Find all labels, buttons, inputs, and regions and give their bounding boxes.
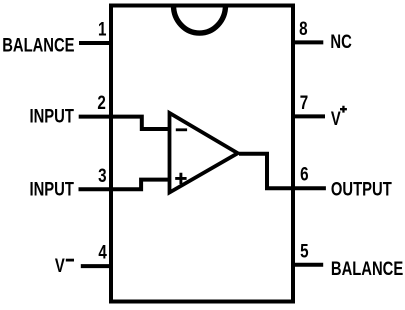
svg-text:INPUT: INPUT [30, 106, 75, 127]
svg-text:7: 7 [300, 91, 308, 113]
svg-text:2: 2 [97, 91, 105, 113]
op-amp non-inverting input plus sign [175, 173, 186, 184]
svg-text:1: 1 [98, 18, 107, 40]
svg-text:BALANCE: BALANCE [331, 258, 403, 279]
svg-text:4: 4 [98, 241, 107, 263]
wire pin 2 stub and inverting-input lead [79, 117, 170, 129]
svg-text:NC: NC [330, 31, 351, 52]
wire pin 8 stub [291, 40, 323, 44]
wire pin 1 stub [79, 41, 113, 45]
svg-text:6: 6 [300, 163, 308, 185]
svg-text:8: 8 [299, 17, 308, 39]
svg-text:V: V [331, 108, 341, 129]
svg-text:INPUT: INPUT [30, 179, 75, 200]
svg-text:OUTPUT: OUTPUT [331, 179, 392, 200]
pin-1 index notch [174, 6, 226, 34]
wire pin 5 stub [291, 263, 323, 267]
svg-text:5: 5 [300, 240, 309, 262]
wire pin 7 stub [291, 114, 325, 118]
wire pin 3 stub and non-inverting-input lead [79, 180, 171, 190]
svg-text:V: V [55, 255, 65, 276]
svg-text:3: 3 [98, 164, 106, 186]
op-amp U1 triangle [170, 113, 238, 193]
op-amp inverting input minus sign [176, 128, 187, 131]
wire pin 4 stub [81, 264, 113, 268]
svg-text:BALANCE: BALANCE [2, 35, 74, 56]
IC body U1 (8-pin DIP package outline) [111, 6, 293, 302]
wire op-amp output to pin 6 [239, 154, 326, 188]
